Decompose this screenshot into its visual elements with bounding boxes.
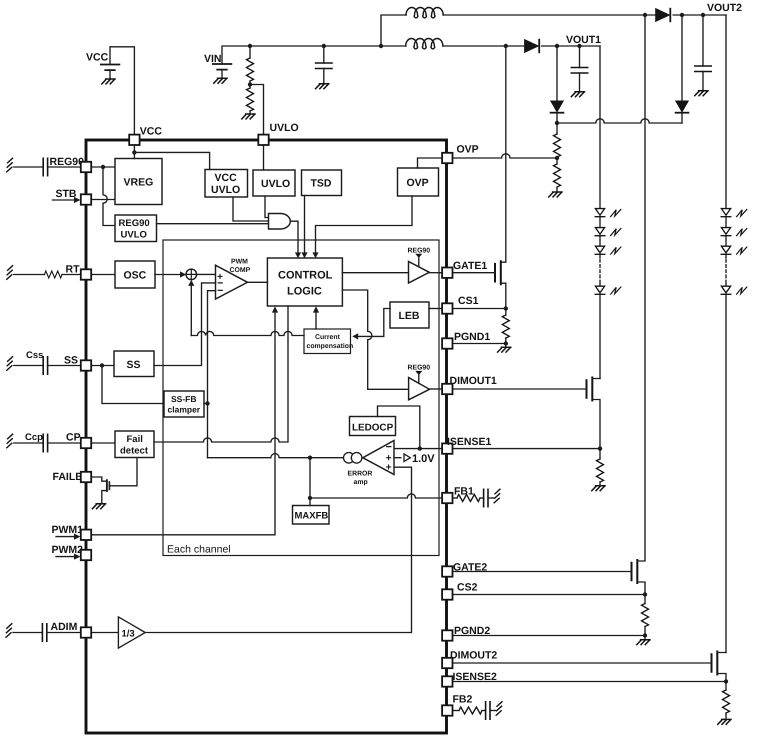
FB2 external RC: [453, 702, 503, 720]
pin FB1: [442, 486, 474, 504]
ground RT: [7, 266, 13, 280]
svg-text:VCC: VCC: [140, 126, 163, 138]
resistor ISENSE2 sense: [718, 682, 731, 725]
wire LEB to CS1 pin: [429, 308, 442, 310]
ground Css: [7, 357, 13, 371]
svg-text:DIMOUT1: DIMOUT1: [450, 375, 497, 387]
block LEB: [390, 302, 429, 328]
wire UVLO block to AND gate: [265, 196, 269, 218]
pin DIMOUT1: [442, 375, 497, 394]
pin CS2: [442, 582, 477, 600]
wire LEDOCP loop: [378, 406, 422, 451]
wire RT internal: [91, 274, 115, 276]
svg-text:REG90: REG90: [119, 218, 150, 229]
diode D1: [525, 40, 540, 53]
FB1 external RC: [453, 489, 501, 506]
wire LEB to current comp: [352, 309, 390, 340]
wire VCC pin to VREG and VCC UVLO: [132, 145, 209, 170]
svg-text:SS: SS: [64, 355, 78, 367]
block SS: [114, 351, 154, 377]
block MAXFB: [293, 506, 330, 525]
wire error output to MAXFB: [308, 458, 312, 506]
wire SS internal: [91, 363, 164, 403]
wire CP internal: [91, 442, 115, 444]
zener diode Z1: [551, 46, 564, 123]
pin FAILB: [81, 472, 91, 482]
wire fail detect to control logic: [154, 306, 288, 442]
block Current compensation: [304, 329, 353, 354]
wire summing to comparator: [197, 273, 216, 275]
wire REG90 UVLO to AND gate: [157, 223, 269, 225]
wire ADIM to error amp: [145, 467, 411, 632]
wire clamper output: [204, 403, 208, 405]
pin PGND2: [442, 625, 490, 641]
svg-text:CONTROL: CONTROL: [278, 270, 333, 282]
wire CS1 external: [453, 306, 508, 310]
svg-text:FB1: FB1: [454, 486, 474, 498]
error amplifier: [208, 441, 395, 487]
wire ISENSE1 external: [453, 446, 603, 450]
capacitor VOUT2: [695, 15, 711, 96]
wire OSC output: [155, 271, 186, 277]
pin CP: [81, 438, 91, 448]
svg-text:SS-FB: SS-FB: [171, 394, 197, 404]
block REG90 UVLO: [115, 215, 157, 242]
pin UVLO top: [258, 122, 298, 145]
svg-text:LEDOCP: LEDOCP: [352, 423, 394, 434]
capacitor VIN input: [316, 46, 332, 89]
resistor CS2 sense: [642, 595, 649, 636]
wire ISENSE2 external: [453, 679, 729, 683]
wire CS2 external: [453, 592, 648, 596]
capacitor Ccp: [14, 432, 81, 452]
wire SS to comparator: [154, 283, 216, 366]
wire control logic to dimout1 buffer: [342, 290, 408, 389]
wire PGND2 external: [453, 633, 651, 644]
wire DIMOUT2 external: [453, 662, 712, 664]
resistor RT: [14, 271, 81, 278]
pin DIMOUT2: [442, 650, 497, 669]
svg-text:VCC: VCC: [215, 172, 238, 184]
Each channel inner box: [163, 240, 439, 556]
wire VCC UVLO to AND gate: [233, 197, 269, 221]
svg-text:PWM: PWM: [231, 259, 248, 266]
pin PWM2: [81, 550, 91, 560]
svg-text:detect: detect: [120, 446, 149, 457]
block Fail detect: [115, 431, 154, 458]
wire control logic to gate1 buffer: [342, 272, 408, 274]
wire AND gate to control logic: [290, 221, 301, 258]
svg-text:Current: Current: [315, 334, 341, 341]
zener diode Z2: [676, 15, 689, 123]
svg-text:Fail: Fail: [127, 434, 143, 445]
svg-text:LEB: LEB: [399, 310, 420, 322]
supply VIN: [204, 53, 231, 83]
pin FB2: [442, 694, 472, 716]
svg-text:STB: STB: [56, 188, 77, 200]
svg-text:clamper: clamper: [168, 405, 201, 415]
pin GATE2: [442, 562, 487, 577]
svg-text:1/3: 1/3: [122, 629, 135, 640]
wire DIMOUT1 external: [453, 388, 587, 390]
label STB with arrow: [53, 188, 81, 203]
LED string 2: [721, 15, 747, 653]
svg-text:VCC: VCC: [86, 52, 109, 64]
block OVP: [398, 168, 439, 196]
wire ISENSE1 to error amp: [394, 448, 442, 450]
svg-text:Css: Css: [26, 350, 43, 361]
svg-text:UVLO: UVLO: [261, 178, 290, 190]
resistor divider VIN upper: [247, 46, 254, 81]
svg-text:UVLO: UVLO: [211, 184, 240, 196]
svg-text:TSD: TSD: [311, 178, 332, 190]
wire VIN rail: [248, 44, 600, 48]
wire OVP block to OVP pin: [418, 158, 443, 168]
svg-text:UVLO: UVLO: [270, 122, 299, 134]
resistor divider VIN lower: [242, 81, 255, 119]
svg-text:REG90: REG90: [408, 365, 431, 372]
svg-text:COMP: COMP: [230, 267, 251, 274]
wire FB1 internal: [310, 494, 442, 498]
ground ADIM: [6, 624, 12, 638]
block VCC UVLO: [205, 170, 248, 198]
wire dimout1 buffer to pin: [430, 388, 443, 390]
transistor Q1 boost switch ch1: [495, 46, 506, 309]
svg-text:VREG: VREG: [124, 177, 154, 189]
transistor Q4 dimming switch ch2: [712, 652, 727, 682]
diode D2: [656, 9, 671, 22]
wire GATE2 external: [453, 571, 632, 573]
pin REG90: [81, 162, 91, 172]
wire PGND1 external: [453, 341, 511, 352]
pin ISENSE1: [442, 436, 491, 454]
svg-text:PWM2: PWM2: [52, 544, 84, 556]
svg-text:REG90: REG90: [50, 156, 85, 168]
svg-text:amp: amp: [354, 479, 368, 486]
buffer gate1 driver: [408, 248, 431, 284]
svg-text:CS2: CS2: [457, 582, 478, 594]
wire GATE1 external: [453, 272, 496, 274]
svg-text:CP: CP: [66, 432, 81, 444]
capacitor REG90: [14, 158, 81, 175]
block UVLO: [253, 170, 295, 196]
svg-text:ERROR: ERROR: [348, 471, 373, 478]
svg-text:MAXFB: MAXFB: [295, 511, 329, 522]
wire divider tap to UVLO pin: [250, 85, 264, 135]
wire error amp to comparator: [205, 291, 215, 458]
wire current comp to control logic: [313, 306, 319, 329]
block TSD: [302, 170, 342, 196]
svg-text:OVP: OVP: [457, 144, 479, 156]
pin RT: [81, 269, 91, 279]
inductor L2: [406, 38, 443, 48]
svg-text:PGND1: PGND1: [454, 331, 490, 343]
wire REG90 internal: [91, 165, 115, 226]
pin PGND1: [442, 331, 490, 349]
capacitor ADIM: [13, 624, 81, 641]
buffer 1/3 ADIM: [91, 617, 145, 648]
pin VCC: [129, 126, 162, 146]
label PWM1 with arrow: [52, 524, 84, 540]
pin ISENSE2: [442, 671, 497, 687]
block SS-FB clamper: [164, 391, 204, 417]
svg-text:ADIM: ADIM: [51, 621, 78, 633]
svg-text:ISENSE1: ISENSE1: [447, 436, 492, 448]
wire OVP block to control logic: [312, 196, 412, 258]
capacitor VOUT1: [571, 46, 587, 97]
wire VIN to rail: [222, 46, 250, 64]
svg-text:LOGIC: LOGIC: [287, 286, 322, 298]
svg-text:FB2: FB2: [453, 694, 473, 706]
pin CS1: [442, 295, 478, 314]
block OSC: [115, 261, 155, 288]
wire PWM1 internal: [91, 306, 278, 535]
ground REG90 cap: [7, 158, 13, 172]
svg-text:Each channel: Each channel: [167, 544, 231, 556]
svg-text:1.0V: 1.0V: [412, 453, 435, 465]
wire gate1 buffer to pin: [429, 272, 442, 274]
wire TSD to control logic: [301, 196, 307, 259]
svg-text:GATE2: GATE2: [453, 562, 487, 574]
svg-text:DIMOUT2: DIMOUT2: [450, 650, 497, 662]
wire comparator output: [248, 281, 268, 283]
svg-text:OSC: OSC: [124, 270, 147, 282]
AND gate U1: [269, 214, 291, 230]
pin OVP: [442, 144, 479, 164]
svg-text:FAILB: FAILB: [53, 471, 84, 483]
svg-text:VOUT1: VOUT1: [566, 34, 601, 46]
resistor OVP lower: [549, 157, 562, 197]
wire zener link: [555, 119, 682, 125]
block CONTROL LOGIC: [267, 258, 342, 306]
block VREG: [115, 159, 162, 205]
svg-text:SS: SS: [127, 359, 141, 371]
wire slope comp to summing node: [188, 280, 304, 336]
pin SS: [81, 360, 91, 370]
svg-text:VOUT2: VOUT2: [707, 2, 742, 14]
wire upper rail: [381, 13, 726, 46]
wire OVP pin net: [453, 154, 560, 160]
svg-text:REG90: REG90: [408, 248, 431, 255]
supply VCC: [86, 52, 119, 84]
wire UVLO pin to UVLO block: [263, 145, 265, 170]
svg-text:PWM1: PWM1: [52, 524, 84, 536]
LED string 1: [595, 46, 621, 379]
svg-text:PGND2: PGND2: [454, 625, 490, 637]
transistor Q3 boost switch ch2: [632, 15, 646, 595]
comparator PWM COMP: [216, 259, 251, 300]
summing node: [186, 269, 197, 280]
resistor OVP upper: [554, 123, 561, 157]
reference 1.0V: [394, 453, 435, 465]
svg-text:RT: RT: [66, 264, 81, 276]
pin GATE1: [442, 260, 487, 278]
pin STB: [81, 194, 91, 204]
pin PWM1: [81, 530, 91, 540]
wire STB internal: [91, 199, 115, 201]
transistor fail output FET: [91, 458, 137, 509]
svg-text:CS1: CS1: [458, 295, 479, 307]
capacitor Css: [14, 350, 81, 374]
resistor CS1 sense: [502, 309, 509, 344]
IC outline: [86, 140, 447, 733]
svg-text:compensation: compensation: [307, 343, 354, 350]
resistor ISENSE1 sense: [592, 449, 605, 491]
svg-text:GATE1: GATE1: [453, 260, 487, 272]
wire VCC net to VCC pin: [110, 47, 134, 135]
svg-text:Ccp: Ccp: [25, 432, 43, 443]
buffer dimout1 driver: [408, 365, 431, 400]
ground Ccp: [7, 434, 13, 448]
svg-text:OVP: OVP: [407, 177, 429, 189]
label PWM2 with arrow: [52, 544, 84, 560]
inductor L1: [406, 7, 443, 17]
pin ADIM: [81, 627, 91, 637]
transistor Q2 dimming switch ch1: [587, 378, 601, 449]
svg-text:ISENSE2: ISENSE2: [453, 671, 498, 683]
svg-text:UVLO: UVLO: [121, 230, 147, 241]
block LEDOCP: [350, 417, 396, 436]
